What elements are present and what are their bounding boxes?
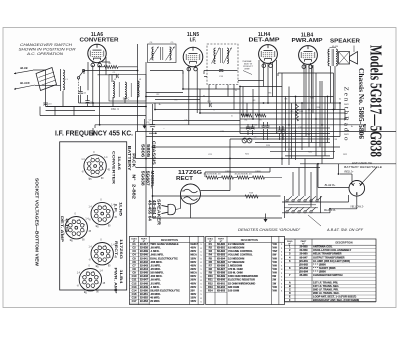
svg-text:MICA: MICA xyxy=(190,254,197,257)
svg-text:R10: R10 xyxy=(208,274,213,278)
svg-text:.006 MFD.: .006 MFD. xyxy=(150,260,162,264)
svg-text:22-848: 22-848 xyxy=(140,281,149,285)
svg-text:(20-862: (20-862 xyxy=(299,262,308,266)
IF transformer T1 xyxy=(148,42,177,63)
svg-text:½W: ½W xyxy=(272,271,277,275)
svg-text:20-558: 20-558 xyxy=(299,245,308,249)
svg-text:RECT: RECT xyxy=(176,176,194,182)
svg-text:½W: ½W xyxy=(272,246,277,250)
capacitor C16 xyxy=(261,122,265,140)
svg-text:CHASSIS: CHASSIS xyxy=(152,141,157,165)
capacitor C2 xyxy=(85,95,93,107)
svg-text:200V: 200V xyxy=(190,286,196,289)
svg-text:22-851: 22-851 xyxy=(140,292,149,296)
svg-text:I.F.: I.F. xyxy=(190,38,197,44)
resistor chain R14 R15 R16 R17 xyxy=(203,171,282,179)
svg-text:DET-AMP: DET-AMP xyxy=(249,38,281,44)
svg-text:MICA: MICA xyxy=(190,272,197,275)
svg-text:63-895: 63-895 xyxy=(217,260,226,264)
svg-text:PWR. AMP: PWR. AMP xyxy=(114,268,119,295)
svg-text:150V: 150V xyxy=(190,257,196,260)
svg-text:SPEAKER: SPEAKER xyxy=(330,38,360,44)
svg-text:20-559: 20-559 xyxy=(299,248,308,252)
svg-text:R6: R6 xyxy=(209,260,213,264)
svg-text:DESCRIPTION: DESCRIPTION xyxy=(161,239,178,242)
svg-text:“ “ “ SHORT (5805: “ “ “ SHORT (5805 xyxy=(313,266,336,270)
svg-text:C2: C2 xyxy=(132,246,136,250)
battery receptacle J1 xyxy=(349,167,377,196)
socket voltages box xyxy=(60,142,127,290)
svg-text:SHOWN IN POSITION FOR: SHOWN IN POSITION FOR xyxy=(19,48,77,52)
wire: additional interstage mesh xyxy=(46,65,335,159)
tube V5 117Z6G rectifier xyxy=(178,184,201,204)
svg-text:.1 MFD.: .1 MFD. xyxy=(150,249,160,253)
svg-text:150V: 150V xyxy=(190,300,196,303)
svg-text:.01 MFD.: .01 MFD. xyxy=(150,263,161,267)
svg-text:1LA6: 1LA6 xyxy=(117,156,122,171)
svg-text:6.8 MEGOHM: 6.8 MEGOHM xyxy=(228,246,244,250)
svg-text:TAP: TAP xyxy=(272,250,277,253)
svg-text:22-849: 22-849 xyxy=(140,285,149,289)
wire: antenna input xyxy=(33,70,146,107)
svg-text:D: D xyxy=(289,291,291,295)
label IF 1LN5 xyxy=(114,202,124,217)
svg-text:63-896: 63-896 xyxy=(217,263,226,267)
svg-text:20-560: 20-560 xyxy=(299,252,308,256)
svg-text:C6: C6 xyxy=(132,260,136,264)
wire: V1 pin drops xyxy=(88,44,138,132)
svg-text:C12: C12 xyxy=(132,281,137,285)
svg-text:63-903: 63-903 xyxy=(217,288,226,292)
svg-text:2ND I.F. TRANS. SEC.: 2ND I.F. TRANS. SEC. xyxy=(313,291,340,295)
svg-text:2W: 2W xyxy=(272,279,276,282)
svg-text:R4: R4 xyxy=(209,253,213,257)
changeover switch S1 xyxy=(77,69,84,95)
svg-text:600V: 600V xyxy=(190,261,196,264)
capacitor C10 xyxy=(277,126,281,140)
label det-amp 1LH4 xyxy=(60,216,70,243)
svg-text:1ST I.F. TRANS. SEC.: 1ST I.F. TRANS. SEC. xyxy=(313,284,339,288)
svg-text:63-901: 63-901 xyxy=(217,281,226,285)
label converter 1LA6 xyxy=(111,151,122,184)
svg-text:85-858: 85-858 xyxy=(299,273,308,277)
svg-text:DESCRIPTION: DESCRIPTION xyxy=(241,239,258,242)
wire: det stage verticals xyxy=(259,60,334,165)
svg-text:C10: C10 xyxy=(132,274,137,278)
svg-text:63-900: 63-900 xyxy=(217,278,226,282)
svg-text:C13: C13 xyxy=(132,285,137,289)
svg-text:C14: C14 xyxy=(132,288,137,292)
svg-text:22-846: 22-846 xyxy=(140,274,149,278)
svg-text:½W: ½W xyxy=(272,256,277,260)
svg-text:100 OHM: 100 OHM xyxy=(228,288,239,292)
svg-text:R12: R12 xyxy=(208,281,213,285)
svg-text:CONVERTER: CONVERTER xyxy=(111,151,116,184)
svg-text:95-847: 95-847 xyxy=(299,255,308,259)
svg-text:A.B.&T. SW. ON OFF: A.B.&T. SW. ON OFF xyxy=(326,228,364,232)
ground symbol example xyxy=(265,214,267,220)
svg-text:CHANGEOVER SWITCH: CHANGEOVER SWITCH xyxy=(20,43,73,47)
svg-text:63-894: 63-894 xyxy=(217,256,226,260)
svg-text:400V: 400V xyxy=(190,247,196,250)
capacitor C8 xyxy=(250,124,257,139)
svg-text:63-892: 63-892 xyxy=(217,249,226,253)
svg-text:200V: 200V xyxy=(190,268,196,271)
svg-text:C1: C1 xyxy=(132,242,136,246)
capacitor C6 xyxy=(244,124,250,139)
svg-text:PACK: PACK xyxy=(131,153,136,167)
svg-text:600V: 600V xyxy=(190,275,196,278)
svg-text:CONVERTER: CONVERTER xyxy=(80,38,119,44)
svg-text:R3: R3 xyxy=(209,249,213,253)
label 117Z6G RECT xyxy=(176,170,202,182)
svg-text:R9: R9 xyxy=(209,271,213,275)
svg-text:22-842: 22-842 xyxy=(140,260,149,264)
svg-text:R14: R14 xyxy=(208,288,213,292)
electrolytic C9 xyxy=(242,138,247,143)
capacitor C15 xyxy=(265,122,269,140)
resistor R7 xyxy=(255,114,266,121)
svg-text:.002 MFD.: .002 MFD. xyxy=(150,274,162,278)
svg-text:DIAG: DIAG xyxy=(208,237,214,240)
svg-text:OUTPUT TRANSFORMER: OUTPUT TRANSFORMER xyxy=(313,255,345,259)
svg-text:ELECTRIC RESISTOR: ELECTRIC RESISTOR xyxy=(228,278,255,282)
capacitor C12 xyxy=(78,86,86,103)
antenna lead BLUE xyxy=(14,66,33,74)
resistor R13 xyxy=(296,104,304,121)
svg-text:PART: PART xyxy=(141,237,147,240)
svg-text:I.F.: I.F. xyxy=(114,204,119,213)
svg-text:2ND I.F. TRANS. PRI.: 2ND I.F. TRANS. PRI. xyxy=(313,287,339,291)
table quantity columns xyxy=(200,244,283,303)
tube V3 1LH4 det-amp xyxy=(249,32,281,67)
svg-text:2.2 MEGOHM: 2.2 MEGOHM xyxy=(228,242,244,246)
svg-text:1 MEGOHM: 1 MEGOHM xyxy=(228,263,242,267)
ground G1 xyxy=(143,119,151,129)
svg-text:22 OHM WIREWOUND: 22 OHM WIREWOUND xyxy=(228,281,255,285)
socket converter 1LA6 xyxy=(81,152,110,181)
wire: right buses xyxy=(136,87,397,168)
svg-text:100 MMFD.: 100 MMFD. xyxy=(150,271,164,275)
changeover switch S2 rear contacts xyxy=(284,159,322,219)
svg-text:½W: ½W xyxy=(272,288,277,292)
tube V4 1LB4 power amp xyxy=(292,33,324,69)
svg-text:R1: R1 xyxy=(209,242,213,246)
capacitor C17 xyxy=(281,126,285,140)
svg-text:150V: 150V xyxy=(190,297,196,300)
tube V2 1LN5 IF amp xyxy=(183,32,203,71)
svg-text:E: E xyxy=(289,295,291,299)
output transformer T3 xyxy=(328,38,361,66)
svg-text:R11: R11 xyxy=(208,278,213,282)
socket det-amp 1LH4 xyxy=(63,214,92,243)
svg-text:R8: R8 xyxy=(209,267,213,271)
ground G2 xyxy=(92,128,94,133)
capacitor C13 xyxy=(43,103,52,106)
parts table 2 (resistors) xyxy=(206,236,285,304)
label rect 117Z6G xyxy=(114,239,124,259)
AC plug xyxy=(162,196,181,215)
resistor R18 xyxy=(238,192,258,198)
svg-text:5G617: 5G617 xyxy=(190,243,198,246)
label pwr-amp 1LB4 xyxy=(114,268,124,295)
misc component reference labels xyxy=(149,90,354,156)
svg-text:C7: C7 xyxy=(132,263,136,267)
note: changeover switch operation xyxy=(19,43,77,56)
svg-text:R2: R2 xyxy=(209,246,213,250)
svg-text:.05 MFD.: .05 MFD. xyxy=(150,278,161,282)
svg-text:22-852: 22-852 xyxy=(140,296,149,300)
svg-text:4.7 MEGOHM: 4.7 MEGOHM xyxy=(228,260,244,264)
svg-text:Z e n i t h R a d i o: Z e n i t h R a d i o xyxy=(343,87,349,141)
svg-text:22-841: 22-841 xyxy=(140,256,149,260)
svg-text:C15: C15 xyxy=(132,292,137,296)
svg-text:PWR.AMP: PWR.AMP xyxy=(292,38,324,44)
wire: battery leads xyxy=(282,164,364,213)
svg-text:5G638: 5G638 xyxy=(141,171,146,187)
svg-text:BATTERY RECEPTACLE: BATTERY RECEPTACLE xyxy=(344,165,383,169)
note: end view battery receptacle xyxy=(344,161,383,169)
svg-text:22-838: 22-838 xyxy=(140,246,149,250)
svg-text:C8: C8 xyxy=(132,267,136,271)
svg-text:63-898: 63-898 xyxy=(217,271,226,275)
svg-text:½W: ½W xyxy=(272,242,277,246)
svg-text:63-897: 63-897 xyxy=(217,267,226,271)
svg-text:.0001 MFD.: .0001 MFD. xyxy=(150,253,164,257)
electrolytic C9b xyxy=(247,138,252,143)
svg-text:40 MFD.: 40 MFD. xyxy=(150,296,160,300)
svg-text:½W: ½W xyxy=(272,260,277,264)
chassis/model data block xyxy=(127,141,162,226)
tube V1 1LA6 converter xyxy=(80,32,119,67)
svg-text:(20-861: (20-861 xyxy=(299,259,308,263)
svg-text:DIAG: DIAG xyxy=(287,240,293,243)
svg-text:WIRE: WIRE xyxy=(244,69,250,71)
svg-text:HELIX TRANSFORMER: HELIX TRANSFORMER xyxy=(313,252,342,256)
svg-text:.1 MFD.: .1 MFD. xyxy=(150,285,160,289)
svg-text:A: A xyxy=(289,280,291,284)
svg-text:“ “ “ (5806: “ “ “ (5806 xyxy=(313,270,326,274)
svg-text:.01 MFD.: .01 MFD. xyxy=(150,281,161,285)
wire: switch leader xyxy=(308,215,364,232)
speaker xyxy=(330,46,358,65)
svg-text:63-902: 63-902 xyxy=(217,285,226,289)
svg-text:400V: 400V xyxy=(190,264,196,267)
svg-text:RECT.: RECT. xyxy=(114,241,119,256)
svg-text:22-853: 22-853 xyxy=(140,299,149,303)
svg-text:1LB4: 1LB4 xyxy=(119,270,124,285)
svg-text:DENOTES CHASSIS “GROUND”: DENOTES CHASSIS “GROUND” xyxy=(238,228,301,232)
arrow B plus xyxy=(149,127,157,134)
svg-text:PART: PART xyxy=(218,237,224,240)
svg-text:5805: 5805 xyxy=(146,144,151,158)
svg-text:C17: C17 xyxy=(132,299,137,303)
svg-text:22-839: 22-839 xyxy=(140,249,149,253)
svg-text:(20-864: (20-864 xyxy=(299,270,308,274)
resistor R4 xyxy=(241,114,252,121)
svg-text:C4: C4 xyxy=(132,253,136,257)
svg-text:22-850: 22-850 xyxy=(140,288,149,292)
svg-text:DUAL ELECTROLYTIC: DUAL ELECTROLYTIC xyxy=(150,256,178,260)
svg-text:22-847: 22-847 xyxy=(140,278,149,282)
svg-text:R13: R13 xyxy=(208,285,213,289)
svg-text:.05 MFD.: .05 MFD. xyxy=(150,292,161,296)
wire: top grid bus xyxy=(84,71,334,77)
svg-text:400V: 400V xyxy=(190,293,196,296)
svg-text:DIAG: DIAG xyxy=(131,237,137,240)
svg-text:A.C. OPERATION: A.C. OPERATION xyxy=(26,52,64,56)
svg-text:(20-863: (20-863 xyxy=(299,266,308,270)
svg-text:63-893: 63-893 xyxy=(217,253,226,257)
loop antenna xyxy=(36,68,57,91)
svg-text:C11: C11 xyxy=(132,278,137,282)
svg-text:1LN5: 1LN5 xyxy=(119,202,124,217)
svg-text:ANTENNA COIL: ANTENNA COIL xyxy=(313,245,333,249)
svg-text:BLUE: BLUE xyxy=(20,66,28,70)
svg-text:DESCRIPTION: DESCRIPTION xyxy=(335,242,352,245)
resistor R1 xyxy=(104,63,118,69)
svg-text:VOLUME CONTROL: VOLUME CONTROL xyxy=(228,253,253,257)
svg-text:5W: 5W xyxy=(272,275,276,278)
capacitor C3 xyxy=(147,104,155,147)
parts table 3 (coils) xyxy=(285,239,377,302)
svg-text:THERMAL: THERMAL xyxy=(242,60,252,63)
svg-text:PART: PART xyxy=(301,240,307,243)
oscillator coil assembly L2 L3 xyxy=(109,75,146,112)
capacitor C11 xyxy=(205,101,214,107)
svg-text:500 C: 500 C xyxy=(123,98,130,101)
svg-text:22-843: 22-843 xyxy=(140,263,149,267)
svg-text:C16: C16 xyxy=(132,296,137,300)
svg-text:+: + xyxy=(152,127,154,131)
svg-text:C5: C5 xyxy=(132,256,136,260)
svg-text:200V: 200V xyxy=(190,279,196,282)
IF transformer T2 xyxy=(207,44,238,85)
wire: IF stage buses xyxy=(40,62,396,236)
svg-text:C3: C3 xyxy=(132,249,136,253)
svg-text:330 OHM: 330 OHM xyxy=(228,285,239,289)
svg-text:C: C xyxy=(289,287,291,291)
svg-text:117Z6G: 117Z6G xyxy=(119,239,124,259)
svg-text:5806: 5806 xyxy=(140,144,145,158)
svg-text:SILVER ELECTROLYTIC: SILVER ELECTROLYTIC xyxy=(150,288,180,292)
svg-text:22-845: 22-845 xyxy=(140,271,149,275)
svg-text:1ST I.F. TRANS. PRI.: 1ST I.F. TRANS. PRI. xyxy=(313,280,338,284)
svg-text:BATTERY: BATTERY xyxy=(127,146,132,171)
svg-text:(5806): (5806) xyxy=(255,171,261,173)
parts table 1 (condensers) xyxy=(130,236,205,304)
svg-text:RED 2+: RED 2+ xyxy=(344,170,354,174)
svg-text:R7: R7 xyxy=(209,263,213,267)
svg-text:SW: SW xyxy=(272,254,277,257)
note: thermal wire xyxy=(242,60,254,75)
svg-text:(5805): (5805) xyxy=(225,171,231,173)
svg-text:470 M. OHM: 470 M. OHM xyxy=(228,267,243,271)
svg-text:48-455 64: 48-455 64 xyxy=(147,200,152,222)
svg-text:2-882: 2-882 xyxy=(131,184,136,200)
svg-text:48-454 MODEL 5G: 48-454 MODEL 5G xyxy=(203,174,220,176)
svg-text:SOCKET VOLTAGES—BOTTOM VIEW: SOCKET VOLTAGES—BOTTOM VIEW xyxy=(34,178,39,266)
svg-text:63-899: 63-899 xyxy=(217,274,226,278)
svg-text:200V: 200V xyxy=(190,250,196,253)
svg-text:22-844: 22-844 xyxy=(140,267,149,271)
svg-text:25V: 25V xyxy=(190,289,195,292)
svg-text:400V: 400V xyxy=(190,282,196,285)
svg-text:220 M. OHM: 220 M. OHM xyxy=(228,271,243,275)
svg-text:1LH4: 1LH4 xyxy=(65,218,70,233)
svg-text:CHANGEOVER SWITCH: CHANGEOVER SWITCH xyxy=(313,273,343,277)
socket pwr-amp 1LB4 xyxy=(77,266,106,295)
svg-text:LOOP ANT. SECT. 1–2 (FOR 5G817: LOOP ANT. SECT. 1–2 (FOR 5G817) xyxy=(313,295,356,299)
svg-text:63-890: 63-890 xyxy=(217,242,226,246)
svg-text:63-891: 63-891 xyxy=(217,246,226,250)
socket rect 117Z6G xyxy=(88,240,117,269)
capacitor C1 xyxy=(113,72,119,78)
svg-text:22-517: 22-517 xyxy=(140,242,149,246)
svg-text:.05 MFD.: .05 MFD. xyxy=(150,246,161,250)
svg-text:OSC. C: OSC. C xyxy=(111,108,120,111)
antenna lead BLACK xyxy=(14,81,35,90)
svg-text:48-455 MODEL 5G: 48-455 MODEL 5G xyxy=(234,174,251,176)
wire: rectifier connections xyxy=(146,147,282,218)
svg-text:½W: ½W xyxy=(272,263,277,267)
svg-text:VOLUME CONTROL: VOLUME CONTROL xyxy=(228,249,253,253)
svg-text:“ “ “ (5806: “ “ “ (5806 xyxy=(313,262,326,266)
svg-text:BROADCAST ANT. SEC. (FOR 5G838: BROADCAST ANT. SEC. (FOR 5G838) xyxy=(313,298,359,302)
svg-text:Models 5G817—5G838: Models 5G817—5G838 xyxy=(367,45,386,157)
svg-text:Nº: Nº xyxy=(131,174,136,181)
svg-text:3.3 MEGOHM: 3.3 MEGOHM xyxy=(228,256,244,260)
svg-text:1500 OHM WIREWOUND: 1500 OHM WIREWOUND xyxy=(228,274,258,278)
svg-text:I.F. AMP. (455 KC) LEFT (5805: I.F. AMP. (455 KC) LEFT (5805) xyxy=(313,259,350,263)
svg-text:OSCILLATOR COIL ASSEMBLY: OSCILLATOR COIL ASSEMBLY xyxy=(313,248,352,252)
svg-text:C9: C9 xyxy=(132,271,136,275)
svg-text:20 MFD.: 20 MFD. xyxy=(150,299,160,303)
svg-text:22-840: 22-840 xyxy=(140,253,149,257)
svg-text:BLACK: BLACK xyxy=(20,81,30,85)
svg-text:½W: ½W xyxy=(272,267,277,271)
svg-text:BLUE B+: BLUE B+ xyxy=(325,183,336,187)
svg-text:Chassis No. 5805-5806: Chassis No. 5805-5806 xyxy=(357,68,365,140)
svg-text:DET. AMP: DET. AMP xyxy=(60,216,65,243)
svg-text:R5: R5 xyxy=(209,256,213,260)
svg-text:½W: ½W xyxy=(272,285,277,289)
socket IF 1LN5 xyxy=(88,200,117,229)
svg-text:B-: B- xyxy=(351,126,353,128)
svg-text:TWO GANG VARIABLE: TWO GANG VARIABLE xyxy=(150,242,179,246)
svg-text:.25 MFD.: .25 MFD. xyxy=(150,267,161,271)
svg-text:B: B xyxy=(289,284,291,288)
svg-text:1W: 1W xyxy=(272,282,276,285)
antenna coil L1 xyxy=(61,69,69,91)
